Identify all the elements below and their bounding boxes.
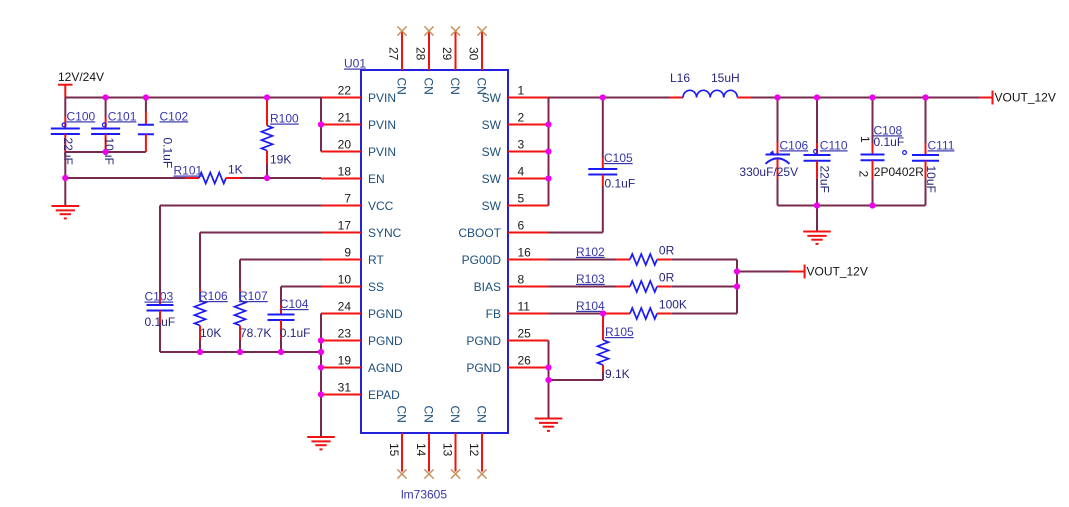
- wire BIAS net: [549, 286, 738, 288]
- junction C108: [869, 94, 875, 100]
- junction R100 bottom: [264, 175, 270, 181]
- svg-text:2: 2: [857, 171, 871, 178]
- inductor L16 15uH: [670, 71, 740, 98]
- svg-text:26: 26: [518, 354, 532, 368]
- svg-text:PG00D: PG00D: [462, 253, 502, 267]
- svg-text:R107: R107: [239, 289, 268, 303]
- svg-text:C106: C106: [780, 138, 809, 152]
- svg-text:VCC: VCC: [368, 199, 394, 213]
- svg-text:7: 7: [344, 192, 351, 206]
- svg-text:C101: C101: [108, 109, 137, 123]
- svg-text:C104: C104: [280, 297, 309, 311]
- svg-text:14: 14: [414, 443, 428, 457]
- pin 22 PVIN (left): [321, 84, 396, 105]
- wire feedback join vertical: [736, 260, 738, 314]
- svg-text:C111: C111: [928, 138, 955, 152]
- pin 10 SS (left): [321, 273, 384, 294]
- svg-text:CN: CN: [422, 406, 436, 423]
- svg-text:CBOOT: CBOOT: [458, 226, 501, 240]
- svg-text:C110: C110: [820, 138, 848, 152]
- svg-text:16: 16: [518, 246, 532, 260]
- pin 2 SW (right): [482, 111, 549, 132]
- wire output ground bus: [778, 205, 926, 207]
- svg-text:5: 5: [518, 192, 525, 206]
- junction AGND bus to PGND chain: [318, 349, 324, 355]
- svg-text:R103: R103: [576, 272, 605, 286]
- pin 27 NC (top, no connect): [387, 26, 409, 94]
- svg-text:12V/24V: 12V/24V: [58, 70, 104, 84]
- wire PGND chain: [320, 314, 322, 438]
- svg-text:PGND: PGND: [368, 334, 403, 348]
- pin 3 SW (right): [482, 138, 549, 159]
- wire CBOOT net: [549, 232, 603, 234]
- wire SYNC net: [200, 233, 321, 290]
- capacitor C100: [51, 98, 96, 165]
- wire input cap ground bus: [65, 151, 146, 153]
- svg-text:100K: 100K: [659, 298, 687, 312]
- net label VOUT_12V (top): [993, 91, 1056, 105]
- pin 31 EPAD (left): [321, 381, 400, 402]
- capacitor C108 0.1uF 2P0402R: [857, 98, 925, 206]
- svg-text:3: 3: [518, 138, 525, 152]
- resistor R107 78.7K: [235, 289, 272, 352]
- svg-text:R102: R102: [576, 245, 605, 259]
- resistor R101 1K: [174, 163, 243, 184]
- capacitor C103 0.1uF: [145, 290, 176, 330]
- svg-text:FB: FB: [486, 307, 501, 321]
- svg-text:31: 31: [338, 381, 352, 395]
- junction C101 bottom: [103, 149, 109, 155]
- svg-text:SW: SW: [482, 118, 502, 132]
- svg-text:23: 23: [338, 327, 352, 341]
- pin 29 NC (top, no connect): [440, 26, 462, 94]
- junction pin 19: [318, 364, 324, 370]
- svg-text:BIAS: BIAS: [474, 280, 501, 294]
- svg-text:27: 27: [387, 47, 401, 61]
- svg-text:1K: 1K: [228, 163, 243, 177]
- wire SS net: [281, 287, 321, 304]
- capacitor C105 0.1uF: [588, 98, 635, 233]
- svg-text:SW: SW: [482, 199, 502, 213]
- svg-text:SS: SS: [368, 280, 384, 294]
- svg-text:0.1uF: 0.1uF: [605, 177, 636, 191]
- svg-text:SYNC: SYNC: [368, 226, 402, 240]
- svg-text:C102: C102: [160, 109, 189, 123]
- svg-text:CN: CN: [395, 406, 409, 423]
- svg-text:13: 13: [441, 443, 455, 457]
- svg-text:10K: 10K: [200, 326, 221, 340]
- svg-text:19: 19: [338, 354, 352, 368]
- svg-text:0.1uF: 0.1uF: [161, 138, 175, 169]
- svg-text:15: 15: [387, 443, 401, 457]
- svg-text:9.1K: 9.1K: [605, 367, 630, 381]
- resistor R102 0R: [576, 244, 675, 266]
- junction at R100 top: [264, 94, 270, 100]
- svg-text:10uF: 10uF: [924, 166, 938, 193]
- junction C111: [922, 94, 928, 100]
- svg-text:PVIN: PVIN: [368, 91, 396, 105]
- svg-text:8: 8: [518, 273, 525, 287]
- wire AGND bus: [160, 351, 321, 353]
- svg-text:21: 21: [338, 111, 352, 125]
- svg-text:EN: EN: [368, 172, 385, 186]
- svg-text:PVIN: PVIN: [368, 118, 396, 132]
- svg-text:L16: L16: [670, 71, 690, 85]
- svg-text:15uH: 15uH: [711, 71, 740, 85]
- net label VOUT_12V (mid): [805, 265, 868, 279]
- op-amp U01 IC body lm73605: [361, 70, 508, 433]
- svg-text:R101: R101: [174, 164, 203, 178]
- svg-text:EPAD: EPAD: [368, 388, 400, 402]
- pin 8 BIAS (right): [474, 273, 549, 294]
- junction C104 bottom: [278, 349, 284, 355]
- svg-text:AGND: AGND: [368, 361, 403, 375]
- ground AGND: [307, 437, 335, 449]
- svg-text:78.7K: 78.7K: [240, 326, 271, 340]
- junction C110: [814, 94, 820, 100]
- wire EN net: [65, 177, 321, 179]
- svg-text:18: 18: [338, 165, 352, 179]
- svg-text:R100: R100: [270, 112, 299, 126]
- svg-text:C103: C103: [145, 290, 174, 304]
- pin 28 NC (top, no connect): [414, 26, 436, 94]
- svg-text:CN: CN: [395, 78, 409, 95]
- junction R105 bottom: [545, 377, 551, 383]
- svg-text:C105: C105: [604, 151, 633, 165]
- pin 16 PG00D (right): [462, 246, 549, 267]
- junction R103 right: [734, 283, 740, 289]
- capacitor C101: [91, 98, 137, 165]
- svg-text:2P0402R: 2P0402R: [874, 165, 924, 179]
- svg-text:0.1uF: 0.1uF: [145, 315, 176, 329]
- junction C106: [774, 94, 780, 100]
- capacitor C111 10uF: [903, 98, 955, 206]
- junction R106 bottom: [197, 349, 203, 355]
- junction at C102 top: [143, 94, 149, 100]
- wire VIN rail: [65, 98, 321, 152]
- wire C100 down to ground: [64, 152, 66, 206]
- wire RT net: [240, 260, 321, 290]
- pin 6 CBOOT (right): [458, 219, 548, 240]
- pin 20 PVIN (left): [321, 138, 396, 159]
- ground PGND: [535, 419, 563, 431]
- svg-text:SW: SW: [482, 145, 502, 159]
- svg-text:CN: CN: [475, 406, 489, 423]
- svg-text:1: 1: [858, 136, 872, 143]
- svg-text:19K: 19K: [270, 153, 291, 167]
- svg-text:R105: R105: [605, 325, 634, 339]
- pin 25 PGND (right): [466, 327, 548, 348]
- junction pin 23: [318, 337, 324, 343]
- svg-text:0R: 0R: [659, 271, 675, 285]
- svg-text:17: 17: [338, 219, 352, 233]
- wire to VOUT_12V mid label: [737, 271, 805, 273]
- svg-text:U01: U01: [344, 57, 366, 71]
- svg-text:R104: R104: [576, 299, 605, 313]
- junction VOUT tap: [734, 268, 740, 274]
- svg-text:1: 1: [518, 84, 525, 98]
- wire R105 to PGND: [549, 379, 604, 381]
- svg-text:24: 24: [338, 300, 352, 314]
- svg-text:R106: R106: [199, 289, 228, 303]
- junction pin 26: [545, 364, 551, 370]
- pin 18 EN (left): [321, 165, 385, 186]
- svg-text:2: 2: [518, 111, 525, 125]
- pin 7 VCC (left): [321, 192, 394, 213]
- junction pin 31: [318, 391, 324, 397]
- resistor R103 0R: [576, 271, 675, 293]
- svg-text:SW: SW: [482, 172, 502, 186]
- svg-text:11: 11: [518, 300, 531, 314]
- wire SW bus: [549, 98, 603, 206]
- capacitor C104 0.1uF: [268, 297, 311, 352]
- svg-text:VOUT_12V: VOUT_12V: [995, 91, 1056, 105]
- ground output: [803, 232, 831, 244]
- pin 15 NC (bottom, no connect): [387, 406, 409, 479]
- svg-text:20: 20: [338, 138, 352, 152]
- svg-text:C100: C100: [67, 109, 96, 123]
- svg-text:0.1uF: 0.1uF: [874, 135, 905, 149]
- ground GND input: [52, 206, 80, 218]
- wire PG00D net: [549, 259, 738, 261]
- svg-text:CN: CN: [475, 78, 489, 95]
- pin 23 PGND (left): [321, 327, 403, 348]
- svg-text:6: 6: [518, 219, 525, 233]
- svg-text:PGND: PGND: [368, 307, 403, 321]
- resistor R104 100K: [576, 298, 737, 320]
- svg-text:CN: CN: [422, 78, 436, 95]
- svg-text:9: 9: [344, 246, 351, 260]
- junction SW pin 2: [545, 121, 551, 127]
- wire PGND 25/26: [548, 341, 550, 419]
- junction FB node: [600, 310, 606, 316]
- svg-text:30: 30: [467, 47, 481, 61]
- resistor R106 10K: [195, 289, 229, 352]
- pin 4 SW (right): [482, 165, 549, 186]
- pin 14 NC (bottom, no connect): [414, 406, 436, 479]
- wire VCC net: [160, 206, 321, 353]
- svg-text:12: 12: [467, 443, 481, 457]
- svg-text:CN: CN: [448, 406, 462, 423]
- svg-text:CN: CN: [448, 78, 462, 95]
- pin 12 NC (bottom, no connect): [467, 406, 489, 479]
- svg-text:PGND: PGND: [466, 361, 501, 375]
- svg-text:0R: 0R: [659, 244, 675, 258]
- junction C110 bottom: [814, 202, 820, 208]
- svg-text:lm73605: lm73605: [401, 488, 447, 502]
- junction at pin 21: [318, 121, 324, 127]
- junction C108 bottom: [869, 202, 875, 208]
- svg-text:10: 10: [338, 273, 352, 287]
- junction SW node C105: [600, 94, 606, 100]
- svg-text:22: 22: [338, 84, 352, 98]
- svg-text:VOUT_12V: VOUT_12V: [807, 265, 868, 279]
- svg-text:28: 28: [414, 47, 428, 61]
- capacitor C106 330uF/25V: [739, 98, 808, 206]
- svg-text:29: 29: [440, 47, 454, 61]
- resistor R105 9.1K: [598, 314, 635, 382]
- capacitor C110 22uF: [804, 98, 848, 206]
- junction EN tap: [62, 175, 68, 181]
- wire VOUT rail: [737, 97, 992, 99]
- pin 17 SYNC (left): [321, 219, 402, 240]
- capacitor C102: [138, 98, 189, 169]
- power symbol 12V/24V: [58, 85, 73, 98]
- svg-text:PVIN: PVIN: [368, 145, 396, 159]
- junction R107 bottom: [237, 349, 243, 355]
- wire output bus to ground: [816, 206, 818, 232]
- pin 1 SW (right): [482, 84, 549, 105]
- pin 26 PGND (right): [466, 354, 548, 375]
- pin 19 AGND (left): [321, 354, 403, 375]
- wire FB net: [549, 313, 604, 315]
- svg-text:25: 25: [518, 327, 532, 341]
- svg-text:PGND: PGND: [466, 334, 501, 348]
- svg-text:4: 4: [518, 165, 525, 179]
- svg-text:330uF/25V: 330uF/25V: [739, 165, 798, 179]
- pin 9 RT (left): [321, 246, 384, 267]
- svg-text:RT: RT: [368, 253, 384, 267]
- junction at C101 top: [103, 94, 109, 100]
- pin 11 FB (right): [486, 300, 549, 321]
- svg-text:22uF: 22uF: [818, 166, 832, 193]
- pin 5 SW (right): [482, 192, 549, 213]
- junction SW pin 3: [545, 148, 551, 154]
- resistor R100 19K: [262, 98, 300, 179]
- pin 21 PVIN (left): [321, 111, 396, 132]
- svg-text:0.1uF: 0.1uF: [280, 326, 311, 340]
- pin 24 PGND (left): [321, 300, 403, 321]
- junction SW pin 4: [545, 175, 551, 181]
- pin 13 NC (bottom, no connect): [441, 406, 463, 479]
- wire SW to inductor: [603, 97, 683, 99]
- pin 30 NC (top, no connect): [467, 26, 489, 94]
